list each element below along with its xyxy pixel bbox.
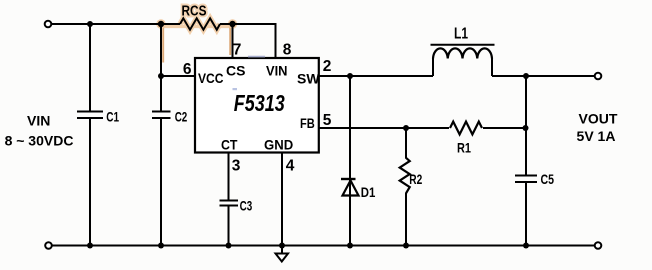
svg-text:5: 5 [323, 112, 332, 129]
svg-text:RCS: RCS [182, 4, 207, 20]
svg-text:CT: CT [221, 136, 238, 152]
svg-text:FB: FB [300, 115, 315, 131]
svg-text:C3: C3 [240, 197, 253, 213]
svg-text:C1: C1 [106, 109, 119, 125]
svg-text:VCC: VCC [198, 70, 224, 86]
svg-text:D1: D1 [361, 184, 376, 200]
svg-text:VOUT: VOUT [579, 111, 618, 127]
svg-text:8 ~ 30VDC: 8 ~ 30VDC [5, 133, 74, 149]
svg-text:SW: SW [297, 71, 320, 87]
svg-text:R2: R2 [409, 171, 422, 187]
svg-text:2: 2 [323, 58, 332, 75]
svg-text:L1: L1 [454, 26, 468, 43]
svg-text:VIN: VIN [266, 62, 288, 78]
svg-text:6: 6 [183, 61, 192, 78]
svg-text:GND: GND [264, 136, 293, 152]
svg-text:R1: R1 [457, 139, 471, 155]
svg-text:7: 7 [233, 41, 242, 58]
svg-text:C5: C5 [541, 171, 555, 187]
svg-text:3: 3 [232, 157, 241, 174]
svg-text:5V 1A: 5V 1A [577, 128, 616, 144]
svg-text:8: 8 [283, 41, 292, 58]
svg-text:C2: C2 [175, 109, 188, 125]
svg-text:4: 4 [286, 157, 295, 174]
svg-text:VIN: VIN [27, 113, 50, 129]
svg-text:F5313: F5313 [234, 90, 285, 116]
svg-text:CS: CS [226, 63, 245, 79]
